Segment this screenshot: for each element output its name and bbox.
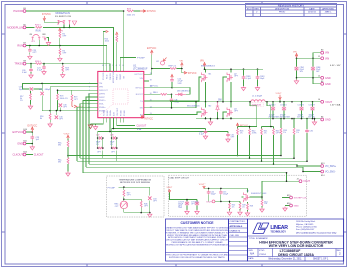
junction PGOOD/R27 bbox=[123, 10, 125, 12]
wire GND input rail bbox=[297, 78, 321, 84]
resistor R17 bbox=[30, 93, 32, 99]
wire DIFFP net bbox=[86, 94, 93, 130]
wire CLKOUT from U1 bbox=[117, 123, 135, 126]
svg-text:100µF: 100µF bbox=[298, 115, 304, 117]
terminal E10 EXTVCC bbox=[23, 131, 26, 134]
svg-text:CLKOUT: CLKOUT bbox=[137, 125, 147, 128]
svg-text:WITH VERY LOW DCR INDUCTOR: WITH VERY LOW DCR INDUCTOR bbox=[269, 244, 324, 248]
capacitor COUT7 bbox=[312, 101, 314, 103]
ground pgnd m2 bbox=[210, 119, 212, 121]
diode U2 bbox=[161, 61, 165, 65]
wire bus line 5 bbox=[86, 130, 303, 172]
wire bus line 4 bbox=[89, 127, 297, 166]
junction TRKSS b bbox=[62, 63, 64, 65]
wire RUN net bbox=[26, 46, 106, 67]
junction INTVCC cap bbox=[171, 87, 173, 89]
svg-text:BOOST: BOOST bbox=[136, 94, 144, 96]
svg-text:PTCMP: PTCMP bbox=[108, 188, 116, 190]
resistor R35 bbox=[293, 118, 295, 120]
svg-text:TRKSS: TRKSS bbox=[14, 62, 23, 66]
svg-text:INTVCC: INTVCC bbox=[188, 73, 197, 75]
resistor R16 bbox=[49, 111, 51, 114]
svg-text:E11: E11 bbox=[24, 141, 27, 143]
svg-text:VIN: VIN bbox=[325, 57, 329, 60]
svg-text:SNSD+: SNSD+ bbox=[99, 100, 107, 102]
svg-text:86.6k 1%: 86.6k 1% bbox=[60, 98, 68, 100]
wire MODE/PLLIN net bbox=[26, 27, 113, 66]
terminal E8 TRKSS bbox=[23, 62, 26, 65]
capacitor C21 on TRKSS bbox=[43, 64, 45, 66]
svg-text:VIN: VIN bbox=[200, 60, 204, 62]
svg-text:2R5TPE470M9: 2R5TPE470M9 bbox=[269, 116, 279, 118]
svg-text:CLKOUT: CLKOUT bbox=[117, 107, 119, 116]
wire PGND rail bbox=[196, 118, 322, 120]
power flag INTVCC (right arrow) bbox=[140, 10, 146, 13]
svg-text:PGOOD: PGOOD bbox=[103, 72, 105, 80]
svg-text:COUT5: COUT5 bbox=[298, 104, 304, 106]
svg-text:DATE: DATE bbox=[309, 8, 315, 11]
diode DB boost bbox=[175, 93, 186, 96]
svg-text:INTVCC: INTVCC bbox=[145, 119, 154, 121]
svg-text:100k: 100k bbox=[105, 41, 109, 43]
junction TRKSS a bbox=[43, 63, 45, 65]
wire PGOOD net bbox=[26, 11, 123, 67]
svg-text:E4: E4 bbox=[321, 81, 323, 83]
power flag EXTVCC up bbox=[31, 127, 34, 132]
svg-text:TITLE: SCHEMATIC: TITLE: SCHEMATIC bbox=[249, 237, 268, 240]
capacitor C19 bbox=[30, 87, 33, 90]
wire load q rail bbox=[204, 188, 248, 192]
svg-text:SIZE: SIZE bbox=[249, 250, 254, 252]
wire vout sense chain bbox=[67, 139, 69, 141]
transistor M1 BSC050NE2LS bbox=[202, 73, 208, 83]
svg-text:E9: E9 bbox=[24, 8, 26, 10]
svg-text:SGND: SGND bbox=[107, 110, 109, 116]
LT logo bbox=[253, 223, 288, 234]
svg-text:Q5: Q5 bbox=[247, 191, 249, 193]
svg-text:GND: GND bbox=[294, 206, 299, 208]
svg-text:MODE/PLLIN: MODE/PLLIN bbox=[113, 70, 115, 83]
wire VIN rail top bbox=[205, 67, 264, 69]
svg-text:SNSA-: SNSA- bbox=[109, 110, 112, 116]
svg-text:CLKOUT: CLKOUT bbox=[34, 154, 44, 157]
terminal E13 VO_SNS+ bbox=[321, 165, 324, 168]
svg-text:APPROVED: APPROVED bbox=[322, 8, 334, 11]
svg-text:GND: GND bbox=[325, 83, 331, 86]
capacitor C36 bbox=[306, 118, 308, 120]
address text bbox=[296, 220, 337, 234]
wire VIN input rail bbox=[297, 53, 321, 59]
resistor R27 bbox=[127, 10, 133, 12]
capacitor C15 intvcc bbox=[170, 78, 174, 82]
svg-text:DIFFN: DIFFN bbox=[99, 93, 105, 95]
power flag VIN m1 bbox=[203, 63, 206, 68]
svg-text:VO_SNS+: VO_SNS+ bbox=[325, 165, 337, 168]
svg-text:1%: 1% bbox=[264, 132, 267, 134]
svg-text:R25 0: R25 0 bbox=[35, 25, 42, 27]
svg-text:SUPPLIED FOR USE WITH LINEAR T: SUPPLIED FOR USE WITH LINEAR TECHNOLOGY … bbox=[169, 256, 226, 259]
junction sense div bbox=[67, 155, 69, 157]
wire BG bbox=[149, 112, 202, 115]
svg-text:VIN: VIN bbox=[139, 78, 143, 80]
revision history table bbox=[246, 4, 337, 17]
svg-text:1%: 1% bbox=[20, 100, 23, 102]
svg-text:12/21/11: 12/21/11 bbox=[308, 12, 317, 14]
capacitor COUT4 bbox=[283, 101, 285, 103]
op-amp U1 LTC3866EUF body bbox=[98, 71, 144, 117]
svg-text:VOUT: VOUT bbox=[64, 133, 71, 135]
transistor Q5 bbox=[244, 193, 250, 203]
svg-text:3.3nF: 3.3nF bbox=[22, 72, 28, 74]
capacitor COUT9 bbox=[185, 201, 189, 205]
resistor R26 bbox=[237, 127, 239, 129]
capacitor C25 on RUN bbox=[29, 45, 31, 47]
power flag INTVCC mid bbox=[236, 123, 239, 127]
svg-text:ILIM: ILIM bbox=[137, 129, 141, 131]
svg-text:0.1µF: 0.1µF bbox=[199, 134, 205, 136]
svg-text:BSC010NE2LS: BSC010NE2LS bbox=[187, 105, 200, 107]
wire SNS wires to bus bbox=[77, 100, 93, 161]
wire VFB net bbox=[50, 87, 93, 111]
capacitor COUT10 bbox=[195, 201, 199, 205]
junction boost bbox=[171, 94, 173, 96]
junction fb a bbox=[49, 110, 51, 112]
U1 exposed pad bbox=[113, 89, 128, 104]
svg-text:Milpitas, CA 95035: Milpitas, CA 95035 bbox=[296, 223, 314, 226]
wire tc bottom rail bbox=[124, 212, 150, 214]
svg-text:IOUT: IOUT bbox=[206, 201, 212, 203]
svg-text:E12: E12 bbox=[24, 152, 27, 154]
resistor RB boost bbox=[149, 93, 161, 95]
diode D1 sw bbox=[216, 102, 219, 112]
resistor R23 on TRKSS bbox=[62, 64, 64, 66]
border zone tick bottom bbox=[87, 264, 262, 267]
wire q5 connections bbox=[242, 197, 248, 204]
svg-text:SiS406DN-T1-GE3: SiS406DN-T1-GE3 bbox=[251, 193, 266, 195]
resistor R41 bbox=[261, 129, 263, 135]
svg-text:PGND: PGND bbox=[120, 110, 122, 116]
svg-text:C38: C38 bbox=[110, 135, 113, 137]
svg-text:100µF: 100µF bbox=[309, 115, 315, 117]
capacitor COUT2 bbox=[272, 101, 274, 103]
resistor R25 inline bbox=[36, 27, 42, 29]
junction IOUT probe bbox=[212, 200, 215, 203]
junction MODE b bbox=[69, 27, 71, 29]
svg-text:1%: 1% bbox=[283, 132, 286, 134]
svg-text:VOUT: VOUT bbox=[167, 187, 174, 189]
svg-text:F.S. BURST CCM: F.S. BURST CCM bbox=[55, 16, 71, 18]
svg-text:PTCMP: PTCMP bbox=[137, 58, 145, 60]
terminal J2 GND bbox=[321, 76, 324, 79]
wire INTVCC pin bbox=[149, 87, 172, 89]
svg-text:ILIM: ILIM bbox=[114, 112, 116, 116]
svg-text:EXTVCC: EXTVCC bbox=[12, 130, 23, 134]
wire EXTVCC drop bbox=[149, 55, 170, 75]
junction MODE a bbox=[63, 27, 65, 29]
capacitor COUT5 bbox=[301, 101, 303, 103]
svg-text:J2: J2 bbox=[318, 76, 320, 78]
svg-text:BSC050NE2LS: BSC050NE2LS bbox=[201, 66, 215, 68]
svg-text:1%: 1% bbox=[96, 144, 99, 146]
svg-text:LOAD STEP CIRCUIT: LOAD STEP CIRCUIT bbox=[169, 176, 190, 179]
wire load caps rail bbox=[170, 193, 198, 202]
wire GND bbox=[26, 143, 32, 145]
svg-text:SHEET 1 OF 1: SHEET 1 OF 1 bbox=[313, 259, 329, 261]
svg-text:1%: 1% bbox=[110, 144, 113, 146]
wire TRKSS net bbox=[26, 64, 110, 67]
resistor R12 freq pull-up bbox=[116, 36, 118, 42]
capacitor CIN8 bbox=[243, 68, 245, 70]
ground sgnd bbox=[91, 123, 104, 125]
svg-text:LINEAR: LINEAR bbox=[270, 225, 288, 231]
wire CLKOUT stub bbox=[26, 154, 33, 156]
svg-text:E6: E6 bbox=[321, 116, 323, 118]
svg-text:4.5V - 14V: 4.5V - 14V bbox=[330, 65, 341, 67]
temp comp dashed box bbox=[107, 176, 165, 217]
svg-text:INTVCC: INTVCC bbox=[135, 87, 143, 89]
svg-text:INTVCC: INTVCC bbox=[42, 13, 51, 16]
wire bus line 1 bbox=[68, 155, 281, 157]
svg-text:7343: 7343 bbox=[178, 207, 182, 209]
inductor L1 bbox=[249, 101, 252, 103]
wire SNSA- from U1 bbox=[98, 123, 216, 132]
ground out bbox=[314, 119, 316, 121]
svg-text:4.99k: 4.99k bbox=[252, 132, 257, 134]
svg-text:CUSTOMER NOTICE: CUSTOMER NOTICE bbox=[180, 221, 214, 225]
svg-text:10k: 10k bbox=[264, 203, 267, 205]
svg-text:E13: E13 bbox=[321, 163, 324, 165]
svg-text:0.1µF: 0.1µF bbox=[37, 70, 43, 72]
capacitor C30 bbox=[59, 108, 61, 111]
svg-text:E5: E5 bbox=[24, 24, 26, 26]
svg-text:E3: E3 bbox=[321, 50, 323, 52]
svg-text:0.1µF: 0.1µF bbox=[246, 78, 252, 80]
svg-text:CLKOUT: CLKOUT bbox=[12, 153, 23, 157]
wire ITH net bbox=[23, 83, 94, 89]
svg-text:DESCRIPTION: DESCRIPTION bbox=[275, 9, 290, 11]
wire DCR sense tap right bbox=[262, 102, 274, 127]
svg-text:LTC Confidential-For Customer: LTC Confidential-For Customer Use Only bbox=[296, 231, 337, 234]
border zone tick left bbox=[2, 34, 6, 232]
wire SW node rail bbox=[170, 101, 250, 103]
power flag VOUT fb bbox=[72, 101, 84, 108]
svg-text:EXTVCC: EXTVCC bbox=[135, 74, 144, 76]
svg-text:IC NO.: IC NO. bbox=[259, 250, 265, 252]
svg-text:J1: J1 bbox=[318, 56, 320, 58]
svg-text:VIN: VIN bbox=[325, 52, 329, 55]
svg-text:1%: 1% bbox=[240, 132, 243, 134]
svg-text:1%: 1% bbox=[296, 132, 299, 134]
wire tc top rail bbox=[119, 187, 150, 195]
svg-text:RUN: RUN bbox=[106, 74, 108, 79]
capacitor C18 bbox=[41, 83, 43, 91]
size / ic no / demo circuit row bbox=[258, 249, 336, 257]
power flag INTVCC ilim bbox=[141, 115, 144, 119]
svg-text:8k: 8k bbox=[40, 118, 42, 120]
svg-text:VOUT: VOUT bbox=[303, 180, 310, 183]
wire DB to INTVCC bbox=[190, 87, 191, 88]
wire to INTVCC flag bbox=[176, 69, 183, 73]
svg-text:SGND: SGND bbox=[103, 110, 105, 116]
svg-text:N/A: N/A bbox=[250, 253, 255, 256]
svg-text:39k: 39k bbox=[58, 162, 61, 164]
svg-text:150µF: 150µF bbox=[223, 193, 229, 195]
svg-text:1630 McCarthy Blvd.: 1630 McCarthy Blvd. bbox=[296, 220, 316, 223]
resistor R6a bottom bbox=[67, 158, 69, 164]
transistor Q4 OPT bottom bbox=[227, 108, 233, 118]
U1 bottom pin stubs bbox=[103, 118, 123, 123]
svg-text:JMM L.: JMM L. bbox=[325, 12, 333, 14]
capacitor CB bootstrap bbox=[171, 94, 173, 98]
svg-text:ITEMP: ITEMP bbox=[120, 73, 122, 80]
capacitor C16 bbox=[55, 111, 57, 115]
svg-text:FREQ: FREQ bbox=[117, 74, 119, 80]
svg-text:CHK: JML: CHK: JML bbox=[230, 235, 240, 237]
capacitor C31 bbox=[216, 132, 229, 134]
power flag VIN input bbox=[295, 54, 298, 59]
capacitor C26 bbox=[30, 63, 32, 65]
svg-text:APPROVALS: APPROVALS bbox=[230, 225, 243, 228]
svg-text:TRKSS: TRKSS bbox=[110, 73, 112, 80]
resistor R19 bbox=[71, 95, 73, 101]
border zone tick right bbox=[344, 34, 348, 232]
wire PTCMP stub bbox=[120, 58, 136, 67]
junction EXTVCC/R bbox=[151, 68, 153, 70]
svg-text:VIN: VIN bbox=[293, 52, 297, 54]
svg-text:R48: R48 bbox=[250, 205, 253, 207]
svg-text:E15: E15 bbox=[287, 195, 290, 197]
U1 top pin names (rotated) bbox=[103, 70, 125, 83]
resistor R1 divider top bbox=[59, 28, 62, 31]
svg-text:COUT7: COUT7 bbox=[309, 104, 315, 106]
svg-text:J3: J3 bbox=[297, 179, 299, 181]
svg-text:DATE:: DATE: bbox=[249, 257, 255, 260]
svg-text:X5R: X5R bbox=[178, 83, 182, 85]
svg-text:INTVCC: INTVCC bbox=[150, 85, 159, 87]
capacitor C23 bbox=[31, 132, 33, 136]
capacitor C38 column bbox=[110, 129, 118, 162]
svg-text:C36: C36 bbox=[309, 130, 312, 132]
terminal E5 MODE/PLLIN bbox=[23, 26, 26, 29]
svg-text:SW: SW bbox=[140, 108, 143, 110]
svg-text:EXTVCC: EXTVCC bbox=[28, 124, 38, 127]
svg-text:E8: E8 bbox=[24, 61, 26, 63]
junction RUN a bbox=[38, 45, 40, 47]
resistor R42 bbox=[249, 129, 251, 135]
svg-text:PGOOD: PGOOD bbox=[13, 9, 23, 13]
svg-text:ITH: ITH bbox=[99, 83, 103, 85]
svg-text:VOUT: VOUT bbox=[276, 93, 283, 95]
junction GND bbox=[32, 143, 34, 145]
thermistor RNTC bbox=[120, 201, 128, 209]
customer notice box bbox=[166, 219, 229, 261]
svg-text:DIFFOUT: DIFFOUT bbox=[99, 90, 108, 92]
svg-text:Fax: (408)434-0507: Fax: (408)434-0507 bbox=[296, 229, 315, 231]
power flag VIN mini bbox=[181, 63, 184, 67]
svg-text:470µF: 470µF bbox=[280, 115, 286, 117]
wire DCR sense tap left bbox=[238, 102, 257, 127]
svg-text:GND: GND bbox=[17, 142, 23, 146]
wire q5 gate from bus bbox=[250, 173, 287, 197]
wire ITEMP stub bbox=[103, 32, 105, 67]
svg-text:IOSTEP CLK: IOSTEP CLK bbox=[294, 198, 307, 200]
wire EXTVCC bbox=[26, 131, 32, 133]
terminal E4 GND bbox=[321, 82, 324, 85]
svg-text:REVISION HISTORY: REVISION HISTORY bbox=[278, 3, 305, 7]
terminal J3 VOUT load bbox=[299, 180, 302, 183]
resistor R46 bbox=[140, 201, 142, 207]
svg-text:DIFFP: DIFFP bbox=[99, 97, 105, 99]
wire bus line 2 bbox=[80, 157, 294, 159]
terminal E6 GND out bbox=[321, 118, 324, 121]
transistor Q2 OPT top bbox=[227, 73, 233, 83]
svg-text:RUN: RUN bbox=[17, 44, 23, 48]
terminal E15 IOSTEP CLK bbox=[290, 196, 293, 199]
capacitor C44 bbox=[207, 190, 211, 194]
terminal E14 VO_SNS- bbox=[321, 170, 324, 173]
svg-text:CONTRACT NO.: CONTRACT NO. bbox=[230, 220, 246, 223]
svg-text:1.5V / 30A: 1.5V / 30A bbox=[330, 104, 341, 107]
resistor R9a top bbox=[67, 141, 69, 147]
svg-text:COUT4: COUT4 bbox=[280, 104, 286, 106]
junction RUN divider bbox=[59, 45, 61, 47]
svg-text:DB CMDSH-3: DB CMDSH-3 bbox=[177, 91, 190, 93]
resistor R44 bbox=[273, 129, 275, 135]
svg-text:38: 38 bbox=[150, 80, 152, 82]
svg-text:GND: GND bbox=[325, 77, 331, 80]
svg-text:L1 0.33µH: L1 0.33µH bbox=[252, 96, 263, 98]
svg-text:NETWORK FOR DCR SENSING: NETWORK FOR DCR SENSING bbox=[120, 182, 151, 184]
U1 left pin names bbox=[99, 83, 108, 112]
svg-text:SNSA+: SNSA+ bbox=[99, 106, 106, 109]
svg-text:E16: E16 bbox=[287, 203, 290, 205]
svg-text:39k: 39k bbox=[58, 145, 61, 147]
terminal E16 GND load bbox=[290, 204, 293, 207]
terminal E9 PGOOD bbox=[23, 10, 26, 13]
resistor R50 bbox=[229, 203, 231, 209]
svg-text:VO_SNS-: VO_SNS- bbox=[325, 171, 336, 174]
U1 right pin stubs bbox=[144, 74, 149, 114]
customer notice body text bbox=[165, 227, 229, 247]
U1 left pin stubs bbox=[93, 83, 98, 110]
wire SW bbox=[149, 102, 196, 108]
svg-text:RUN: RUN bbox=[36, 30, 41, 32]
junction out mid bbox=[291, 101, 293, 103]
svg-text:150µF: 150µF bbox=[211, 193, 217, 195]
U1 bottom pin names (rotated) bbox=[103, 107, 125, 116]
svg-text:100k 1%: 100k 1% bbox=[127, 15, 136, 17]
svg-text:E10: E10 bbox=[24, 129, 27, 131]
resistor R49 bbox=[239, 203, 241, 209]
resistor R47 bbox=[123, 190, 125, 196]
capacitor CIN3 bbox=[257, 68, 259, 70]
svg-text:PGND: PGND bbox=[124, 110, 126, 116]
svg-text:TECHNOLOGY APPLICATIONS ENGINE: TECHNOLOGY APPLICATIONS ENGINEERING FOR … bbox=[165, 243, 229, 246]
svg-text:GND: GND bbox=[325, 119, 331, 122]
title block main box bbox=[248, 219, 344, 261]
capacitor C45 bbox=[219, 190, 223, 194]
power flag VOUT sense bbox=[67, 135, 70, 138]
jumper JP3 MODE/PLLIN select bbox=[55, 12, 77, 32]
svg-text:470µF: 470µF bbox=[269, 115, 275, 117]
svg-text:LTC3866EUF: LTC3866EUF bbox=[133, 68, 148, 71]
U1 right pin names bbox=[135, 74, 144, 116]
svg-text:P1814: P1814 bbox=[260, 254, 267, 256]
terminal E11 GND bbox=[23, 142, 26, 145]
resistor R33 bbox=[280, 118, 282, 120]
svg-text:REV: REV bbox=[255, 9, 260, 11]
wire TG bbox=[149, 77, 202, 101]
